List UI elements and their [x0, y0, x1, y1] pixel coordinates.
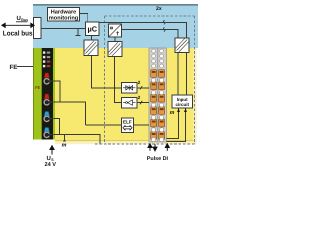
svg-text:DI: DI	[163, 156, 169, 162]
svg-text:2x: 2x	[156, 6, 162, 12]
svg-text:monitoring: monitoring	[49, 15, 79, 22]
svg-text:Hardware: Hardware	[51, 9, 77, 16]
svg-text:Local bus: Local bus	[3, 29, 33, 37]
svg-text:U: U	[17, 15, 21, 22]
svg-text:circuit: circuit	[175, 102, 189, 107]
svg-text:µC: µC	[87, 25, 97, 34]
svg-text:ELF: ELF	[123, 120, 132, 125]
svg-text:24 V: 24 V	[45, 162, 57, 168]
svg-text:2: 2	[138, 80, 141, 85]
svg-text:FE: FE	[35, 86, 40, 90]
svg-text:Input: Input	[177, 97, 188, 102]
svg-text:m: m	[62, 142, 67, 148]
svg-text:m: m	[170, 110, 175, 116]
svg-text:FE: FE	[10, 64, 18, 71]
svg-text:Pulse: Pulse	[147, 156, 161, 162]
svg-text:2: 2	[138, 95, 141, 100]
